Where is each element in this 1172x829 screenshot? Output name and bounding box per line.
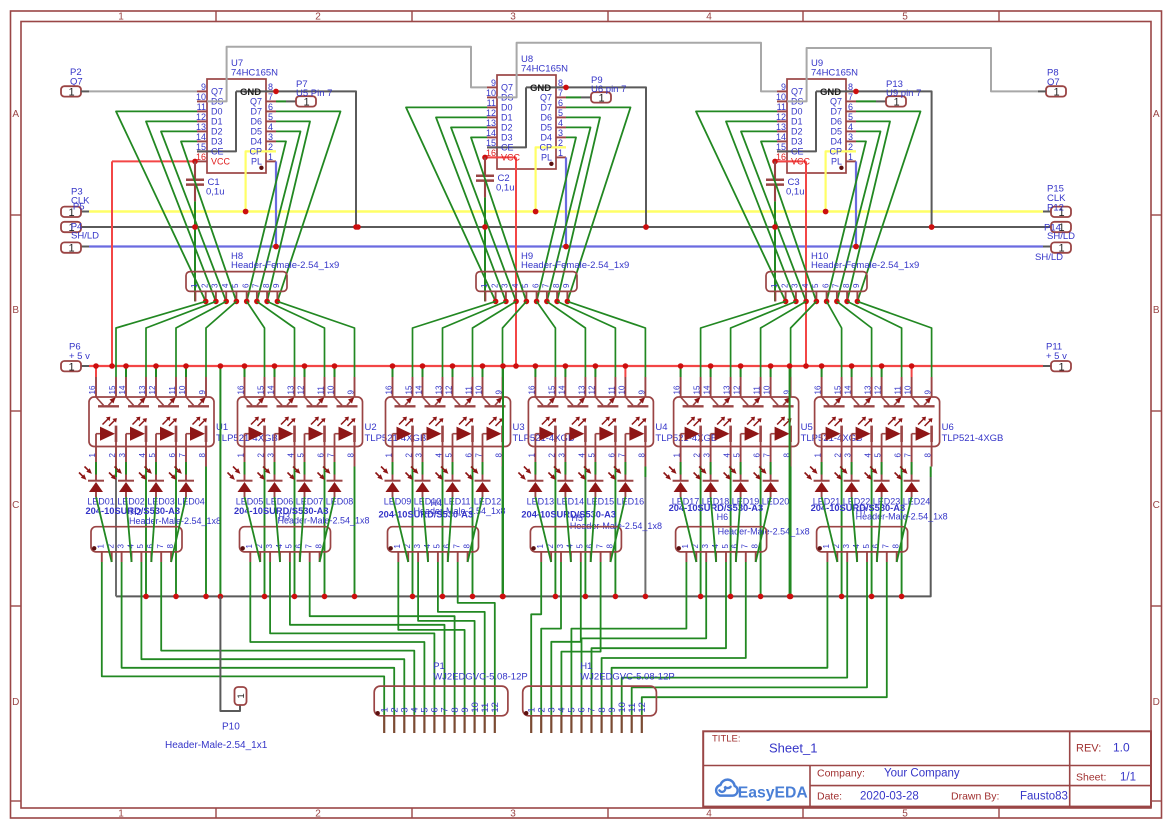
svg-text:16: 16	[385, 385, 394, 394]
svg-text:7: 7	[156, 544, 165, 549]
svg-text:10: 10	[617, 385, 626, 394]
LED LED13 204-10SURD/S530-A3	[518, 462, 616, 520]
svg-text:1: 1	[480, 283, 489, 288]
svg-text:D: D	[1153, 697, 1160, 708]
svg-text:1: 1	[822, 544, 831, 549]
LED inside U3 channel 3	[453, 417, 474, 447]
capacitor C1 0,1u	[186, 161, 225, 229]
svg-text:GND: GND	[240, 87, 261, 98]
transistor channel 2 of U2	[275, 397, 298, 406]
wire U2 cathode pins down to GND bus	[262, 467, 358, 600]
svg-text:4: 4	[268, 122, 273, 132]
header H6 Header-Male-2.54_1x8	[676, 512, 810, 562]
svg-text:1: 1	[814, 453, 823, 458]
wire U6 cathode pins down to GND bus	[839, 467, 905, 600]
svg-text:9: 9	[781, 82, 786, 92]
svg-text:LED11: LED11	[444, 496, 471, 506]
wire GND to header H10 pin 1	[774, 227, 776, 301]
transistor channel 4 of U5	[771, 397, 794, 406]
svg-text:7: 7	[904, 453, 913, 458]
svg-text:3: 3	[510, 12, 516, 23]
svg-text:14: 14	[486, 128, 496, 138]
svg-text:P1: P1	[433, 661, 445, 672]
svg-text:0,1u: 0,1u	[496, 182, 515, 193]
svg-text:6: 6	[465, 453, 474, 458]
svg-text:1: 1	[770, 283, 779, 288]
header H5 Header-Male-2.54_1x8	[530, 513, 662, 562]
svg-text:Q7: Q7	[501, 83, 513, 93]
transistor channel 3 of U4	[595, 397, 618, 406]
wire gray cascade P8 to U9.DS	[787, 48, 1046, 101]
svg-text:VCC: VCC	[501, 153, 521, 163]
svg-text:12: 12	[490, 702, 501, 713]
svg-text:1: 1	[673, 453, 682, 458]
svg-text:D5: D5	[540, 123, 552, 133]
transistor channel 4 of U6	[912, 397, 935, 406]
svg-text:WJ2EDGVC-5.08-12P: WJ2EDGVC-5.08-12P	[580, 672, 675, 683]
svg-text:Header-Male-2.54_1x1: Header-Male-2.54_1x1	[165, 740, 268, 751]
LED inside U2 channel 2	[275, 417, 296, 447]
svg-text:C: C	[1153, 500, 1160, 511]
svg-text:U2: U2	[365, 422, 377, 433]
svg-text:D5: D5	[830, 127, 842, 137]
svg-text:1: 1	[68, 361, 74, 373]
wire PL of U9 to SH/LD rail	[853, 161, 859, 249]
svg-text:4: 4	[221, 283, 230, 288]
wire SH/LD blue rail	[81, 246, 1051, 248]
svg-text:D2: D2	[501, 123, 513, 133]
svg-text:13: 13	[138, 385, 147, 394]
svg-text:3: 3	[844, 453, 853, 458]
LED inside U2 channel 1	[245, 417, 266, 447]
junction dots header H8	[203, 299, 280, 305]
svg-text:1: 1	[236, 693, 247, 698]
svg-text:3: 3	[415, 453, 424, 458]
transistor channel 1 of U6	[822, 397, 845, 406]
svg-text:1: 1	[527, 453, 536, 458]
svg-text:1: 1	[245, 544, 254, 549]
wire +5V red rail	[81, 365, 1051, 367]
svg-text:D4: D4	[540, 133, 552, 143]
LED inside U1 channel 2	[126, 417, 147, 447]
LED LED03 204-10SURD/S530-A3	[139, 462, 175, 506]
LED inside U3 channel 1	[393, 417, 414, 447]
svg-text:D2: D2	[211, 127, 223, 137]
svg-text:15: 15	[257, 385, 266, 394]
svg-text:9: 9	[491, 78, 496, 88]
svg-text:74HC165N: 74HC165N	[231, 68, 278, 79]
wire +5V feed module1 to bus and P10	[218, 363, 240, 711]
svg-text:5: 5	[587, 453, 596, 458]
transistor channel 4 of U3	[483, 397, 506, 406]
svg-text:Header-Male-2.54_1x8: Header-Male-2.54_1x8	[414, 506, 506, 516]
svg-text:7: 7	[848, 92, 853, 102]
svg-text:6: 6	[586, 544, 595, 549]
svg-text:14: 14	[267, 385, 276, 394]
svg-text:3: 3	[848, 132, 853, 142]
junction dots CLK rail	[243, 209, 829, 215]
connector P11 +5V right	[1046, 342, 1071, 374]
capacitor C3 0,1u	[766, 161, 805, 229]
transistor channel 3 of U1	[156, 397, 179, 406]
svg-text:11: 11	[894, 386, 903, 395]
svg-text:5: 5	[297, 453, 306, 458]
svg-text:1: 1	[68, 243, 74, 255]
LED inside U6 channel 4	[912, 417, 933, 447]
wire GND to header H9 pin 1	[484, 227, 486, 301]
wire +5V drops to U1 collectors	[93, 363, 189, 377]
svg-text:5: 5	[862, 544, 871, 549]
svg-text:TLP521-4XGB: TLP521-4XGB	[365, 433, 427, 444]
wire CP of U7 to CLK rail	[243, 151, 276, 214]
svg-text:3: 3	[556, 544, 565, 549]
svg-text:4: 4	[706, 809, 712, 820]
svg-text:6: 6	[848, 102, 853, 112]
svg-text:2: 2	[848, 142, 853, 152]
connector P5 SH/LD	[61, 242, 81, 254]
wire fan header H10 to optocouplers	[701, 301, 932, 377]
wire U9 pin8 to P13 net and GND rail	[816, 89, 934, 230]
svg-text:12: 12	[445, 385, 454, 394]
svg-text:16: 16	[237, 385, 246, 394]
transistor channel 2 of U6	[852, 397, 875, 406]
svg-text:9: 9	[347, 390, 356, 395]
svg-text:12: 12	[776, 112, 786, 122]
svg-text:LED02: LED02	[117, 496, 145, 506]
wire U5 cathode pins down to GND bus	[698, 467, 794, 600]
svg-text:CP: CP	[249, 147, 262, 157]
svg-text:8: 8	[347, 453, 356, 458]
svg-text:LED15: LED15	[587, 496, 615, 506]
wire +5V drops to U5 collectors	[678, 363, 774, 377]
svg-text:Header-Female-2.54_1x9: Header-Female-2.54_1x9	[811, 260, 919, 271]
svg-text:WJ2EDGVC-5.08-12P: WJ2EDGVC-5.08-12P	[433, 672, 528, 683]
svg-text:9: 9	[201, 82, 206, 92]
svg-text:2: 2	[558, 138, 563, 148]
LED inside U1 channel 1	[96, 417, 117, 447]
connector P16 SH/LD right	[1035, 242, 1071, 263]
svg-text:3: 3	[265, 544, 274, 549]
svg-text:16: 16	[486, 148, 496, 158]
svg-text:14: 14	[415, 385, 424, 394]
svg-text:11: 11	[487, 98, 496, 108]
svg-text:9: 9	[198, 390, 207, 395]
svg-text:3: 3	[413, 544, 422, 549]
svg-text:Q7: Q7	[250, 97, 262, 107]
svg-text:EasyEDA: EasyEDA	[738, 785, 808, 802]
svg-text:4: 4	[287, 453, 296, 458]
svg-text:6: 6	[558, 98, 563, 108]
svg-text:U3: U3	[513, 422, 525, 433]
svg-text:3: 3	[116, 544, 125, 549]
svg-text:P12: P12	[1047, 203, 1064, 214]
wire +5V drops to U3 collectors	[390, 363, 486, 377]
svg-text:D7: D7	[540, 103, 552, 113]
svg-text:1.0: 1.0	[1113, 741, 1130, 755]
transistor channel 2 of U3	[423, 397, 446, 406]
svg-text:1: 1	[681, 544, 690, 549]
LED LED08 204-10SURD/S530-A3	[318, 462, 354, 506]
svg-text:6: 6	[821, 283, 830, 288]
svg-text:Header-Female-2.54_1x9: Header-Female-2.54_1x9	[521, 260, 629, 271]
svg-text:D0: D0	[211, 107, 223, 117]
connector P2 Q7	[61, 67, 83, 99]
svg-text:16: 16	[527, 385, 536, 394]
svg-text:10: 10	[776, 92, 786, 102]
svg-text:B: B	[12, 305, 19, 316]
wire Q7 gray from P2 to U7 pin 9	[81, 90, 197, 92]
wire fan U8 D0-D3 to header	[406, 107, 526, 301]
junction dots header H9	[493, 299, 570, 305]
wire GND dark rail	[81, 226, 1051, 228]
transistor channel 2 of U1	[126, 397, 149, 406]
header H7 Header-Male-2.54_1x8	[817, 506, 948, 562]
wire GND net inside U9 pin8 to CE pin15	[777, 91, 816, 151]
LED inside U4 channel 2	[565, 417, 586, 447]
svg-text:15: 15	[486, 138, 496, 148]
svg-text:5: 5	[433, 544, 442, 549]
svg-text:16: 16	[88, 385, 97, 394]
svg-text:0,1u: 0,1u	[206, 186, 225, 197]
connector P7	[276, 79, 332, 109]
svg-text:Q7: Q7	[791, 87, 803, 97]
svg-text:LED16: LED16	[617, 496, 645, 506]
wire GND net inside U8 pin8 to CE pin15	[487, 87, 526, 147]
svg-text:8: 8	[842, 283, 851, 288]
wire U4 cathode pins down to GND bus	[553, 467, 649, 600]
svg-text:6: 6	[443, 544, 452, 549]
svg-text:B: B	[1153, 305, 1160, 316]
svg-text:6: 6	[731, 544, 740, 549]
svg-text:12: 12	[874, 385, 883, 394]
svg-text:6: 6	[317, 453, 326, 458]
connector P6 +5V	[61, 342, 90, 374]
svg-text:15: 15	[693, 385, 702, 394]
svg-text:D0: D0	[501, 103, 513, 113]
connector P1 WJ2EDGVC-5.08-12P	[374, 661, 528, 733]
LED inside U1 channel 3	[156, 417, 177, 447]
svg-text:2: 2	[693, 453, 702, 458]
svg-text:Sheet_1: Sheet_1	[769, 741, 817, 756]
wire +5V drops to U2 collectors	[242, 363, 338, 377]
wire VCC of U9 to +5V rail	[772, 159, 809, 369]
svg-text:13: 13	[723, 385, 732, 394]
LED inside U6 channel 2	[852, 417, 873, 447]
svg-text:D1: D1	[791, 117, 803, 127]
LED LED22 204-10SURD/S530-A3	[835, 462, 871, 506]
svg-text:SH/LD: SH/LD	[1035, 252, 1063, 263]
svg-text:8: 8	[552, 283, 561, 288]
header H4 Header-Male-2.54_1x8	[388, 498, 506, 562]
LED LED04 204-10SURD/S530-A3	[169, 462, 205, 506]
svg-text:LED20: LED20	[762, 496, 790, 506]
wire +5V drops to U4 collectors	[533, 363, 629, 377]
svg-text:15: 15	[776, 142, 786, 152]
svg-text:8: 8	[558, 78, 563, 88]
svg-text:14: 14	[557, 385, 566, 394]
svg-text:6: 6	[242, 283, 251, 288]
svg-text:7: 7	[558, 88, 563, 98]
svg-text:13: 13	[776, 122, 786, 132]
optocoupler U2 pins	[237, 377, 356, 467]
svg-text:9: 9	[924, 390, 933, 395]
svg-text:3: 3	[558, 128, 563, 138]
svg-text:9: 9	[852, 283, 861, 288]
LED LED18 204-10SURD/S530-A3	[694, 462, 730, 506]
wire PL of U7 to SH/LD rail	[273, 161, 279, 249]
svg-text:Company:: Company:	[817, 768, 865, 780]
svg-text:11: 11	[753, 386, 762, 395]
svg-text:3: 3	[557, 453, 566, 458]
svg-text:3: 3	[703, 453, 712, 458]
svg-text:6: 6	[268, 102, 273, 112]
svg-text:14: 14	[844, 385, 853, 394]
svg-text:P5: P5	[73, 201, 85, 212]
wire gray cascade U8.Q7 to U7.DS	[207, 47, 487, 102]
svg-text:13: 13	[577, 385, 586, 394]
svg-text:5: 5	[136, 544, 145, 549]
svg-text:VCC: VCC	[791, 157, 811, 167]
LED LED12 204-10SURD/S530-A3	[466, 462, 502, 506]
svg-text:D5: D5	[250, 127, 262, 137]
svg-text:REV:: REV:	[1076, 743, 1101, 755]
wire PL of U8 to SH/LD rail	[563, 157, 569, 249]
LED LED16 204-10SURD/S530-A3	[608, 462, 644, 506]
svg-text:7: 7	[832, 283, 841, 288]
svg-text:2: 2	[834, 453, 843, 458]
connector H1 WJ2EDGVC-5.08-12P	[523, 661, 675, 733]
wire LED cathodes to H7 even pins	[822, 497, 912, 562]
svg-text:6: 6	[753, 453, 762, 458]
IC U9 74HC165N body	[777, 79, 856, 173]
IC U7 74HC165N body	[197, 79, 276, 173]
svg-text:3: 3	[701, 544, 710, 549]
svg-text:8: 8	[262, 283, 271, 288]
svg-text:5: 5	[576, 544, 585, 549]
svg-text:6: 6	[168, 453, 177, 458]
svg-text:13: 13	[435, 385, 444, 394]
svg-text:10: 10	[196, 92, 206, 102]
svg-text:1: 1	[68, 87, 74, 99]
svg-text:16: 16	[196, 152, 206, 162]
svg-text:SH/LD: SH/LD	[1047, 231, 1075, 242]
svg-text:LED14: LED14	[557, 496, 585, 506]
svg-text:CE: CE	[791, 147, 804, 157]
svg-text:3: 3	[842, 544, 851, 549]
wire U7 pin8 to P7 net and GND rail	[236, 89, 359, 230]
svg-text:5: 5	[558, 108, 563, 118]
svg-text:H1: H1	[580, 661, 592, 672]
svg-text:LED08: LED08	[326, 496, 354, 506]
svg-text:10: 10	[327, 385, 336, 394]
svg-text:LED09: LED09	[384, 496, 412, 506]
svg-text:5: 5	[902, 12, 908, 23]
svg-text:11: 11	[607, 386, 616, 395]
svg-text:2: 2	[257, 453, 266, 458]
svg-text:SH/LD: SH/LD	[71, 231, 99, 242]
LED inside U5 channel 1	[681, 417, 702, 447]
svg-text:U6: U6	[942, 422, 954, 433]
transistor channel 1 of U5	[681, 397, 704, 406]
LED LED06 204-10SURD/S530-A3	[258, 462, 294, 506]
wire CLK yellow rail	[81, 211, 1051, 213]
svg-text:Q7: Q7	[830, 97, 842, 107]
LED inside U6 channel 1	[822, 417, 843, 447]
svg-text:11: 11	[317, 386, 326, 395]
svg-text:5: 5	[848, 112, 853, 122]
svg-text:5: 5	[721, 544, 730, 549]
svg-text:3: 3	[118, 453, 127, 458]
wire GND bottom bus	[116, 467, 931, 597]
svg-text:2: 2	[108, 453, 117, 458]
LED inside U4 channel 4	[625, 417, 646, 447]
svg-text:7: 7	[178, 453, 187, 458]
svg-text:7: 7	[741, 544, 750, 549]
svg-text:5: 5	[902, 809, 908, 820]
title block	[703, 731, 1151, 806]
svg-text:2: 2	[490, 283, 499, 288]
svg-text:7: 7	[305, 544, 314, 549]
svg-text:D3: D3	[501, 133, 513, 143]
svg-text:D4: D4	[250, 137, 262, 147]
svg-text:6: 6	[607, 453, 616, 458]
svg-text:D3: D3	[791, 137, 803, 147]
svg-text:12: 12	[486, 108, 496, 118]
svg-text:4: 4	[577, 453, 586, 458]
svg-text:3: 3	[267, 453, 276, 458]
svg-text:7: 7	[882, 544, 891, 549]
svg-text:D2: D2	[791, 127, 803, 137]
svg-text:8: 8	[198, 453, 207, 458]
svg-text:9: 9	[562, 283, 571, 288]
svg-text:CE: CE	[211, 147, 224, 157]
LED inside U3 channel 2	[423, 417, 444, 447]
wire fan U9 D4-D7 to header	[827, 111, 921, 301]
svg-text:6: 6	[146, 544, 155, 549]
svg-text:U5: U5	[801, 422, 813, 433]
svg-text:8: 8	[637, 453, 646, 458]
LED inside U3 channel 4	[483, 417, 504, 447]
svg-text:1: 1	[393, 544, 402, 549]
wire LED cathodes to H6 even pins	[681, 497, 771, 562]
svg-text:2: 2	[405, 453, 414, 458]
svg-text:1: 1	[268, 152, 273, 162]
transistor channel 3 of U5	[741, 397, 764, 406]
svg-text:14: 14	[703, 385, 712, 394]
svg-text:5: 5	[874, 453, 883, 458]
LED LED11 204-10SURD/S530-A3	[436, 462, 471, 506]
wire fan U8 D4-D7 to header	[537, 107, 631, 301]
svg-text:1: 1	[1053, 87, 1059, 99]
svg-text:5: 5	[285, 544, 294, 549]
svg-text:3: 3	[268, 132, 273, 142]
optocoupler U6 TLP521-4XGB body	[815, 397, 1004, 447]
svg-text:74HC165N: 74HC165N	[521, 64, 568, 75]
svg-text:4: 4	[706, 12, 712, 23]
transistor channel 1 of U3	[393, 397, 416, 406]
svg-text:1: 1	[88, 453, 97, 458]
svg-text:D7: D7	[250, 107, 262, 117]
LED inside U5 channel 3	[741, 417, 762, 447]
header H3 Header-Male-2.54_1x8	[240, 512, 370, 563]
svg-text:13: 13	[864, 385, 873, 394]
connector P10 Header-Male-2.54_1x1	[165, 687, 268, 751]
wire fan U7 D0-D3 to header	[116, 111, 236, 301]
svg-text:15: 15	[547, 385, 556, 394]
transistor channel 4 of U4	[625, 397, 648, 406]
svg-text:4: 4	[511, 283, 520, 288]
svg-text:11: 11	[197, 102, 206, 112]
